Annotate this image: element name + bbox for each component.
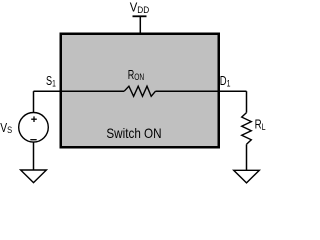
svg-text:D1: D1	[220, 73, 231, 89]
svg-text:Switch ON: Switch ON	[106, 125, 161, 141]
svg-text:VDD: VDD	[130, 0, 150, 16]
svg-text:S1: S1	[46, 73, 56, 89]
svg-text:RL: RL	[255, 117, 266, 133]
svg-text:VS: VS	[0, 120, 12, 136]
